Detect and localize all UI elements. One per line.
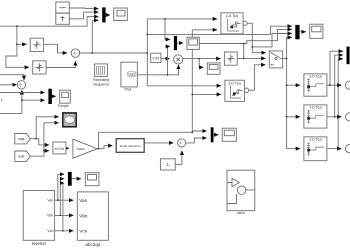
wire center mux to block187 [177, 42, 183, 44]
wire junction up to center mux tick2 [168, 46, 171, 74]
wire abc2dq to gain [66, 147, 69, 149]
wire torque mux to torque scope [52, 95, 56, 97]
wire sum1 branch up to mux1 tick4 [92, 20, 98, 53]
wire product to block224 [183, 58, 221, 60]
svg-text:wds: wds [18, 155, 24, 159]
wire block187 out up to mux2 tick2 [244, 29, 292, 43]
icon repeating sequence stripes [97, 66, 105, 74]
icon sum1 plus [73, 52, 76, 56]
abc2dq block [53, 142, 66, 154]
wire left edge into sum2 [0, 84, 17, 86]
wire constant 1 to sum3 bottom [175, 151, 182, 165]
svg-text:Vbn: Vbn [47, 214, 53, 218]
wire branch to 1-D table3 [287, 148, 300, 150]
scope3 [85, 173, 99, 186]
svg-text:1: 1 [167, 162, 170, 167]
wire v3 to mux3 tick3 [338, 58, 343, 60]
wire Vbn branch up to mux4 tick2 [60, 179, 64, 216]
svg-text:180/pi: 180/pi [76, 147, 85, 151]
plot subsystem [121, 62, 137, 87]
mux2 scope2 [310, 24, 323, 38]
torque mux bar [48, 89, 51, 104]
icon 1-D table1 [307, 79, 310, 93]
wire Vcn branch up to mux4 tick3 [63, 183, 64, 231]
2-D lookup table 2 [225, 80, 245, 101]
sum circle right row1 [345, 81, 350, 89]
svg-text:Vcn: Vcn [79, 229, 87, 234]
repeating sequence block [95, 64, 108, 77]
sum circle right row2 [345, 113, 350, 121]
wire junction to center mux tick1 [165, 19, 170, 40]
wire from below into sum2 bottom [0, 90, 22, 113]
wire block224 to switch input2 [237, 57, 265, 59]
wire mux3 vertical v3 [337, 59, 339, 149]
icon product cross [176, 58, 180, 62]
icon sum3 plus [179, 141, 182, 144]
abc2qd subsystem [77, 192, 108, 240]
wire junction up to 2-D table1 input1 [147, 19, 217, 53]
inverter subsystem [23, 191, 54, 241]
svg-text:abc2dq: abc2dq [55, 146, 65, 150]
block224 saturation [224, 52, 237, 65]
icon 2-D table2 [231, 86, 242, 99]
icon 1-D table3 [307, 142, 310, 156]
wire inverter Vcn to abc2qd [55, 230, 74, 232]
svg-text:1: 1 [0, 98, 2, 102]
wire left edge into sum2 top [0, 75, 24, 80]
wire branch to 1-D table1 [287, 84, 300, 86]
icon source1 [60, 7, 66, 8]
wire junction down the feed column [286, 58, 288, 148]
wire tag wqs to abc2dq input1 [30, 139, 49, 145]
wire 1-D table2 to sum circle [327, 116, 342, 118]
svg-text:Inverter: Inverter [32, 241, 47, 246]
source block 1 [56, 2, 70, 13]
block187 [187, 37, 199, 49]
wire switch output to junction [283, 57, 287, 59]
wire tag wds up to XY scope input2 [30, 123, 58, 156]
plot out1 port box [127, 72, 136, 76]
motor subsystem [227, 170, 255, 211]
angle transformation block [116, 139, 144, 153]
wire branch to 1-D table2 [287, 116, 300, 118]
wire block B to sum1 bottom [46, 61, 75, 67]
svg-text:abc2qd: abc2qd [85, 242, 101, 247]
svg-text:Sequence: Sequence [93, 83, 109, 87]
wire mux1 to scope1 [106, 14, 110, 16]
svg-text:angle transform: angle transform [120, 144, 141, 148]
wire branch to torque mux tick2 [22, 99, 45, 101]
gain 180/pi [73, 139, 97, 158]
wire top of column to 2-D table1 input2 [192, 29, 217, 31]
scope4 [222, 128, 236, 141]
wire mux2 to scope2 [300, 31, 306, 33]
wire 1-D table3 to sum circle [327, 148, 342, 150]
icon block224 [227, 54, 235, 62]
svg-text:1-D T(u): 1-D T(u) [309, 106, 322, 110]
wire sum1 output long run [80, 52, 148, 54]
wire mux5 to scope4 [214, 134, 219, 136]
tag wqs [15, 134, 31, 144]
wire branch down to scope5 [199, 59, 203, 68]
sum2 [17, 81, 25, 89]
svg-text:wqs: wqs [18, 137, 24, 141]
wire mux4 to scope3 [72, 178, 81, 180]
wire v2 to mux3 tick2 [335, 54, 343, 56]
1-D lookup table 1 [304, 74, 327, 96]
wire 1-D table1 to sum circle [327, 84, 342, 86]
sum3 [178, 139, 186, 147]
wire block187 out junction [199, 44, 243, 59]
torque scope [60, 90, 71, 103]
wire 2-D table2 output up to switch input3 [249, 65, 266, 90]
wire constant 0.95 to product [161, 58, 170, 60]
product circle [174, 55, 183, 64]
2-D lookup table 1 [221, 13, 243, 34]
wire Van branch up to mux4 tick1 [58, 174, 64, 200]
wire branch to mux2 tick3 [252, 34, 291, 47]
wire angle long run to mux5 tick1 [99, 131, 207, 149]
svg-text:Plot: Plot [125, 88, 132, 92]
wire gain to angle transformation [97, 146, 112, 149]
wire source2 to mux1 tick2 [69, 12, 98, 19]
icon 1-D table2 [307, 110, 310, 124]
constant 1 [160, 159, 175, 170]
wire inverter Vbn to abc2qd [55, 214, 74, 216]
wire tag wqs branch up to XY scope input1 [36, 117, 58, 139]
wire source1 to mux1 tick1 [69, 7, 98, 10]
icons group [19, 7, 324, 203]
block A saturation [30, 38, 43, 51]
wire junction down to 2-D table2 input1 [147, 53, 221, 86]
icon motor internals [227, 183, 255, 204]
icon block A [33, 41, 41, 49]
scope1 [114, 8, 128, 21]
svg-text:Torque: Torque [58, 104, 69, 108]
wire Plot Out1 to product bottom [137, 65, 178, 75]
mux2 bar [295, 25, 299, 39]
switch block [269, 51, 282, 68]
sum circle right row3 [345, 145, 350, 153]
source block 2 [56, 13, 70, 24]
svg-text:Van: Van [47, 199, 53, 203]
wire left edge to mux1 tick3 [0, 17, 98, 27]
icon source2 [61, 16, 65, 22]
icon sum2 plus [19, 83, 22, 86]
svg-text:Vbn: Vbn [79, 213, 88, 218]
wire vertical 192 column [191, 30, 193, 133]
mux4 bar [68, 172, 72, 186]
block B saturation [33, 61, 46, 74]
svg-text:Out1: Out1 [128, 72, 135, 76]
svg-text:1-D T(u): 1-D T(u) [309, 138, 322, 142]
icon switch [272, 53, 283, 65]
sum1 [71, 49, 79, 57]
svg-text:0.95: 0.95 [152, 57, 159, 61]
wire v1 to mux3 tick1 [330, 50, 343, 52]
1-D lookup table 3 [304, 137, 327, 161]
wire block A to sum1 [44, 44, 67, 53]
wire long run from sum1 column to mux2 tick1 [147, 26, 291, 34]
mux5 bar [211, 127, 214, 142]
center mux bar [174, 36, 177, 50]
wire angle transformation to sum3 [144, 142, 173, 144]
1-D lookup table 2 [304, 105, 327, 128]
svg-text:2-D T(u): 2-D T(u) [228, 81, 241, 85]
mux3 bar [347, 47, 350, 65]
wire mux3 vertical v2 [334, 55, 336, 117]
wire branch to 2-D table2 input2 [192, 93, 221, 95]
wire tag wds branch to abc2dq input2 [44, 150, 49, 152]
XY graph scope [63, 113, 76, 127]
wire vertical chain into blocks A and B [17, 26, 27, 44]
wire mux3 vertical v1 [329, 51, 331, 85]
svg-text:2-D T(u): 2-D T(u) [226, 14, 239, 18]
wire left edge to torque mux tick1 [0, 92, 45, 94]
wire sum3 to mux5 tick2 [186, 138, 207, 143]
mux1 bar [102, 7, 105, 22]
wire 2-D table1 output down to switch input1 [247, 23, 266, 52]
wire inverter Van to abc2qd [55, 199, 74, 201]
svg-text:1-D T(u): 1-D T(u) [309, 75, 322, 79]
icon block B [36, 63, 44, 71]
tag wds [15, 151, 31, 161]
svg-text:Van: Van [79, 198, 87, 203]
scope5 [207, 63, 220, 74]
icon 2-D table1 [228, 19, 240, 32]
constant 0.95 [151, 53, 161, 62]
svg-text:Vcn: Vcn [47, 229, 53, 233]
wire switch output up to mux2 tick4 [287, 37, 292, 58]
svg-text:motor: motor [237, 211, 246, 215]
